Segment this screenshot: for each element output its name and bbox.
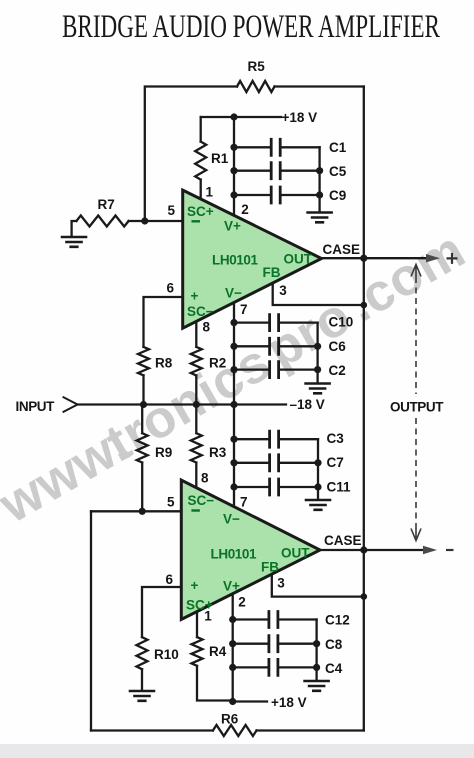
svg-text:LH0101: LH0101 bbox=[212, 253, 259, 268]
svg-text:R6: R6 bbox=[221, 711, 239, 726]
svg-text:FB: FB bbox=[263, 265, 281, 280]
resistor R10 bbox=[137, 637, 148, 669]
node: C8 left bbox=[229, 640, 236, 647]
ground at R10 bbox=[130, 691, 154, 701]
U1 inverting bar under SC+ bbox=[192, 220, 201, 222]
node: C10 left bbox=[230, 319, 237, 326]
ground under C9 bank bbox=[308, 213, 332, 223]
capacitor C5 bbox=[234, 170, 320, 172]
svg-text:LH0101: LH0101 bbox=[211, 547, 258, 562]
wire: input / -18V rail bbox=[77, 403, 286, 405]
resistor R9 bbox=[137, 405, 148, 512]
capacitor C12 bbox=[233, 618, 317, 620]
svg-text:SC+: SC+ bbox=[187, 204, 214, 219]
node: FB lower junction bbox=[361, 593, 368, 600]
bottom scan strip bbox=[0, 744, 474, 758]
svg-text:C9: C9 bbox=[329, 188, 346, 203]
wire: lower-left vertical bbox=[90, 511, 92, 730]
node: output upper junction bbox=[360, 255, 367, 262]
svg-text:SC−: SC− bbox=[188, 493, 215, 508]
node: C4 right bbox=[313, 664, 320, 671]
op-amp U1 LH0101 upper bbox=[183, 190, 322, 328]
svg-text:C8: C8 bbox=[325, 637, 343, 652]
node: C6 right bbox=[314, 343, 321, 350]
ground under C4 bank bbox=[305, 681, 329, 691]
node: +18V top junction bbox=[230, 113, 237, 120]
svg-text:C7: C7 bbox=[327, 455, 344, 470]
node: C12 left bbox=[229, 616, 236, 623]
svg-text:+18 V: +18 V bbox=[282, 110, 318, 125]
svg-text:R2: R2 bbox=[209, 356, 226, 371]
wire: right outer vertical bbox=[363, 87, 365, 731]
svg-text:C12: C12 bbox=[325, 612, 350, 627]
svg-text:R3: R3 bbox=[209, 445, 227, 460]
node: R2/R3 on rail bbox=[193, 401, 200, 408]
node: C3 left bbox=[230, 436, 237, 443]
wire: left outer vertical from R5 to pin5 junction bbox=[145, 87, 237, 222]
svg-text:V+: V+ bbox=[223, 578, 240, 593]
wire: pin5 line upper bbox=[129, 220, 183, 222]
svg-text:R8: R8 bbox=[155, 356, 173, 371]
svg-text:8: 8 bbox=[201, 471, 209, 486]
dashed OUTPUT dimension line bbox=[411, 265, 421, 541]
svg-text:8: 8 bbox=[203, 320, 211, 335]
wire: C1-C9 right bus bbox=[318, 147, 320, 212]
wire: bottom loop bbox=[91, 729, 364, 731]
wire: C12-C4 right bus bbox=[315, 620, 317, 681]
svg-text:V+: V+ bbox=[224, 218, 241, 233]
capacitor C6 bbox=[234, 345, 318, 347]
svg-text:R4: R4 bbox=[209, 644, 227, 659]
wire: R7 left to ground bbox=[72, 221, 77, 237]
wire: C3-C11 right bus bbox=[317, 439, 319, 499]
resistor R4 bbox=[192, 611, 233, 701]
ground at R7 bbox=[62, 237, 86, 247]
svg-text:C10: C10 bbox=[329, 315, 354, 330]
resistor R2 bbox=[191, 322, 202, 405]
svg-text:6: 6 bbox=[167, 281, 175, 296]
resistor R6 bbox=[213, 725, 257, 736]
svg-text:V−: V− bbox=[225, 286, 242, 301]
svg-text:OUT: OUT bbox=[281, 545, 310, 560]
node: C2 right bbox=[314, 366, 321, 373]
wire: C10-C2 right bus bbox=[316, 323, 318, 383]
svg-text:OUT: OUT bbox=[284, 252, 313, 267]
op-amp U2 inner labels bbox=[186, 493, 310, 613]
op-amp U2 LH0101 lower bbox=[181, 480, 320, 619]
wire: top to right outer vertical bbox=[275, 85, 364, 87]
svg-text:+: + bbox=[191, 578, 199, 593]
svg-text:R10: R10 bbox=[154, 647, 179, 662]
resistor R7 bbox=[76, 216, 128, 227]
title bbox=[62, 10, 440, 44]
svg-text:C4: C4 bbox=[325, 661, 343, 676]
svg-text:INPUT: INPUT bbox=[16, 399, 56, 414]
svg-text:C3: C3 bbox=[327, 431, 345, 446]
capacitor C9 bbox=[234, 194, 320, 196]
node: C5 right bbox=[316, 167, 323, 174]
node: input/R8-R9 junction bbox=[140, 401, 147, 408]
resistor R5 bbox=[237, 81, 275, 92]
wire: pin6 lower to R10 bbox=[142, 587, 181, 637]
svg-text:–18 V: –18 V bbox=[290, 397, 325, 412]
resistor R8 bbox=[138, 347, 149, 376]
svg-text:OUTPUT: OUTPUT bbox=[390, 400, 444, 415]
svg-text:FB: FB bbox=[261, 559, 279, 574]
svg-text:SC+: SC+ bbox=[186, 598, 213, 613]
input arrow chevron bbox=[64, 397, 78, 412]
svg-text:SC−: SC− bbox=[187, 304, 214, 319]
node: C5 left bbox=[230, 167, 237, 174]
svg-text:V−: V− bbox=[223, 511, 240, 526]
ground under C2 bank bbox=[306, 384, 330, 394]
wire: FB loop lower bbox=[272, 575, 364, 597]
node: +18V bottom junction bbox=[229, 698, 236, 705]
svg-text:2: 2 bbox=[238, 594, 246, 609]
wire: pin2 column upper (caps C1 C5 C9 left bus) bbox=[233, 117, 235, 215]
node: C9 left bbox=[230, 191, 237, 198]
resistor R3 bbox=[191, 405, 202, 488]
capacitor C10 bbox=[234, 321, 318, 323]
wire: +18V top rail bbox=[201, 116, 281, 118]
svg-text:R9: R9 bbox=[155, 445, 172, 460]
node: C11 left bbox=[230, 483, 237, 490]
output arrow + (upper) bbox=[426, 254, 440, 262]
node: R9/pin5 lower junction bbox=[139, 508, 146, 515]
node: C7 left bbox=[230, 459, 237, 466]
capacitor C11 bbox=[234, 486, 318, 488]
svg-text:R1: R1 bbox=[211, 151, 229, 166]
node: C8 right bbox=[313, 640, 320, 647]
svg-text:C5: C5 bbox=[329, 164, 347, 179]
node: C7 right bbox=[314, 459, 321, 466]
svg-text:3: 3 bbox=[279, 283, 287, 298]
resistor R1 bbox=[195, 117, 206, 199]
svg-text:C2: C2 bbox=[329, 363, 346, 378]
svg-text:2: 2 bbox=[241, 202, 249, 217]
svg-text:C1: C1 bbox=[329, 140, 347, 155]
node: C11 right bbox=[314, 483, 321, 490]
output arrow - (lower) bbox=[423, 546, 437, 554]
node: FB upper junction bbox=[361, 302, 368, 309]
node: C4 left bbox=[229, 664, 236, 671]
svg-text:CASE: CASE bbox=[323, 242, 361, 257]
svg-text:7: 7 bbox=[240, 302, 248, 317]
svg-text:CASE: CASE bbox=[324, 533, 362, 548]
capacitor C2 bbox=[234, 368, 318, 370]
svg-text:C11: C11 bbox=[327, 480, 352, 495]
svg-text:7: 7 bbox=[240, 495, 248, 510]
svg-text:R7: R7 bbox=[98, 197, 115, 212]
svg-text:C6: C6 bbox=[329, 339, 347, 354]
ground under C11 bank bbox=[306, 500, 330, 510]
capacitor C7 bbox=[234, 462, 318, 464]
wire: output upper bbox=[322, 257, 427, 259]
wire: output lower bbox=[320, 549, 424, 551]
svg-text:1: 1 bbox=[206, 185, 214, 200]
wire: +18V bottom rail bbox=[233, 700, 267, 702]
node: output lower junction bbox=[360, 546, 367, 553]
node: pin7 column on rail bbox=[230, 401, 237, 408]
wire: pin6 upper to R8 bbox=[144, 297, 183, 347]
node: R7/pin5 junction bbox=[141, 217, 148, 224]
node: C6 left bbox=[230, 343, 237, 350]
svg-text:5: 5 bbox=[167, 495, 175, 510]
svg-text:6: 6 bbox=[166, 572, 174, 587]
wire: R10 to ground bbox=[141, 669, 143, 690]
wire: R8 bottom to input node bbox=[142, 375, 144, 404]
U2 inverting bar under SC- bbox=[191, 509, 200, 511]
capacitor C1 bbox=[234, 146, 320, 148]
svg-text:5: 5 bbox=[168, 203, 176, 218]
svg-text:+18 V: +18 V bbox=[271, 695, 307, 710]
capacitor C8 bbox=[233, 643, 317, 645]
node: C9 right bbox=[316, 191, 323, 198]
node: C2 left bbox=[230, 366, 237, 373]
wire: pin7 column (upper V- to lower pin7) bbox=[233, 301, 235, 507]
op-amp U1 inner labels bbox=[187, 204, 313, 319]
wire: pin5 line lower bbox=[91, 510, 181, 512]
svg-text:+: + bbox=[191, 289, 199, 304]
svg-text:3: 3 bbox=[277, 576, 285, 591]
capacitor C4 bbox=[233, 666, 317, 668]
capacitor C3 bbox=[234, 438, 318, 440]
wire: FB loop upper bbox=[273, 283, 364, 305]
wire: pin2 column lower (caps C12 C8 C4 left bus) bbox=[232, 594, 234, 702]
svg-text:R5: R5 bbox=[248, 59, 266, 74]
node: C1 left bbox=[230, 144, 237, 151]
